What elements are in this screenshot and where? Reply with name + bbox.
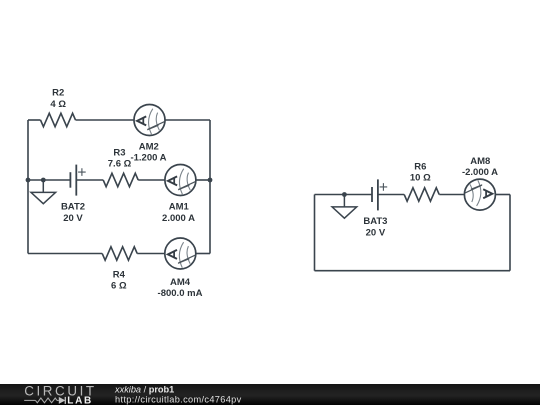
svg-text:20 V: 20 V bbox=[366, 227, 386, 238]
wire R4 to AM4 bbox=[137, 253, 165, 255]
svg-text:xxkiba / prob1: xxkiba / prob1 bbox=[114, 385, 174, 395]
resistor R2 bbox=[41, 113, 76, 126]
svg-text:BAT2: BAT2 bbox=[61, 202, 85, 213]
svg-text:7.6 Ω: 7.6 Ω bbox=[108, 159, 132, 170]
svg-text:20 V: 20 V bbox=[63, 213, 83, 224]
resistor R3 bbox=[103, 173, 138, 186]
wire AM1 to right vertical bbox=[196, 179, 210, 181]
wire top-left lead bbox=[28, 119, 41, 121]
wire BAT2 to R3 bbox=[76, 179, 103, 181]
junction node at left vertical / middle row bbox=[26, 178, 31, 183]
ammeter AM4 bbox=[165, 238, 196, 269]
wire R6 to AM8 bbox=[439, 194, 464, 196]
svg-text:AM8: AM8 bbox=[470, 156, 490, 167]
footer bar bbox=[0, 384, 540, 405]
svg-text:2.000 A: 2.000 A bbox=[162, 213, 195, 224]
wire AM8 to right vertical bbox=[495, 194, 510, 196]
resistor R6 bbox=[404, 188, 439, 201]
wire R3 to AM1 bbox=[138, 179, 165, 181]
junction node at right-circuit ground tap bbox=[342, 192, 347, 197]
wire right-circuit row left segment bbox=[315, 194, 373, 196]
svg-text:BAT3: BAT3 bbox=[363, 216, 387, 227]
svg-text:R3: R3 bbox=[113, 147, 125, 158]
ground symbol (left circuit) bbox=[31, 180, 56, 204]
ammeter AM8 (rotated 180) bbox=[464, 179, 495, 210]
svg-text:-2.000 A: -2.000 A bbox=[462, 167, 498, 178]
resistor R4 bbox=[102, 247, 137, 260]
wire middle row left bbox=[28, 179, 70, 181]
svg-text:AM4: AM4 bbox=[170, 277, 191, 288]
battery BAT2 bbox=[70, 165, 85, 196]
logo wire with resistor bbox=[24, 398, 59, 403]
svg-text:-800.0 mA: -800.0 mA bbox=[158, 288, 203, 299]
svg-text:10 Ω: 10 Ω bbox=[410, 173, 431, 184]
svg-text:R4: R4 bbox=[113, 269, 126, 280]
svg-text:AM1: AM1 bbox=[169, 202, 190, 213]
ammeter AM1 bbox=[165, 165, 196, 196]
junction node at right vertical / middle row bbox=[208, 178, 213, 183]
svg-text:6 Ω: 6 Ω bbox=[111, 281, 127, 292]
wire right-circuit right vertical bbox=[509, 195, 511, 271]
svg-text:LAB: LAB bbox=[67, 395, 93, 405]
svg-text:R2: R2 bbox=[52, 88, 64, 99]
svg-text:-1.200 A: -1.200 A bbox=[130, 153, 166, 164]
svg-text:http://circuitlab.com/c4764pv: http://circuitlab.com/c4764pv bbox=[115, 394, 242, 404]
wire AM2 to right corner bbox=[165, 119, 210, 121]
wire right vertical of left loop bbox=[209, 120, 211, 254]
battery BAT3 bbox=[372, 179, 387, 210]
svg-text:AM2: AM2 bbox=[139, 141, 159, 152]
wire bottom row left bbox=[28, 253, 102, 255]
junction node at ground tap bbox=[41, 178, 46, 183]
right circuit wires bbox=[315, 188, 511, 271]
wire left vertical of left loop bbox=[27, 120, 29, 254]
wire right-circuit left vertical bbox=[314, 195, 316, 271]
wire R2 to AM2 bbox=[76, 119, 135, 121]
ground symbol (right circuit) bbox=[332, 195, 357, 219]
ammeter AM2 bbox=[134, 105, 165, 136]
wire AM4 to right vertical bbox=[196, 253, 210, 255]
wire BAT3 to R6 bbox=[378, 194, 404, 196]
svg-text:R6: R6 bbox=[414, 161, 426, 172]
svg-text:4 Ω: 4 Ω bbox=[50, 99, 66, 110]
logo diode bbox=[59, 397, 66, 404]
wire right-circuit bottom bbox=[315, 270, 511, 272]
